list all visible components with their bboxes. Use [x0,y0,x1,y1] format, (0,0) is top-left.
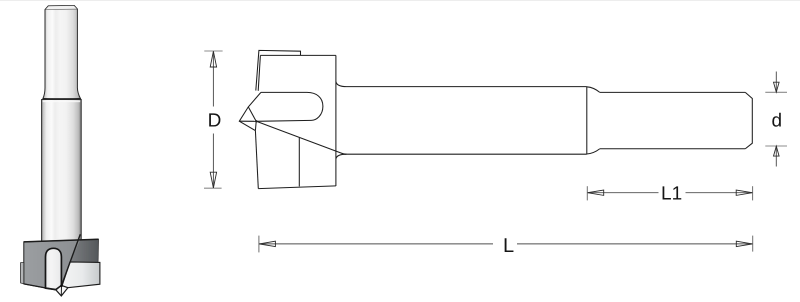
svg-text:D: D [208,111,222,132]
inner vertical edge [298,138,300,187]
darker zone right of flute diagonal [70,239,99,262]
dark top face [24,239,99,290]
shank bottom line [600,148,746,150]
head-body bottom fillet [336,154,347,159]
dimension D extension ticks [204,51,223,188]
svg-text:L1: L1 [661,183,682,204]
svg-text:d: d [772,110,783,131]
dimension d arrows [774,82,780,156]
dimension L1 extension ticks [587,186,752,200]
head bottom edge [258,186,336,189]
shank end chamfer [745,92,752,148]
svg-text:L: L [503,235,514,257]
dimension L extension ticks [259,236,753,253]
dimension d extension ticks [765,92,787,146]
centre spur facets [239,92,261,130]
bottom-right cutting lip block [62,262,100,288]
drill bit body (photo) [42,100,82,242]
body end vertical [586,87,588,155]
left rim strip [21,263,24,284]
head top edge [260,54,336,56]
centre spur tip [56,285,68,296]
dimension d lines [775,72,777,167]
drill bit shank (photo) [43,6,81,99]
main cutting edge diagonal [256,121,347,154]
body-shank bottom fillet [587,149,600,154]
body-shank top fillet [587,87,600,93]
head back rim outline [256,50,301,90]
dimension L1 arrows [588,190,753,195]
shank top line [600,91,746,93]
dimension L arrows [259,241,752,246]
head-body top fillet [336,82,347,87]
body top line [347,86,587,88]
head upper-left edge [258,55,260,90]
flare dark band (photo) [43,99,81,100]
page top border [0,0,800,1]
dimension L1 line [588,192,753,194]
head bottom-left edge [24,284,56,290]
head lower-left edge [255,131,258,189]
dimension D line [212,51,214,188]
dimension L line [259,243,752,245]
body bottom line [347,153,587,155]
centre slot / brad point (rounded U) [46,248,62,289]
spur junction dot [255,120,257,122]
head right edge [335,55,337,186]
flute diagonal line [61,234,80,287]
drill bit head (photo) [21,234,100,296]
dimension D arrows [210,51,216,188]
chip slot rounded cavity [256,92,323,121]
head top edge line [24,239,99,242]
